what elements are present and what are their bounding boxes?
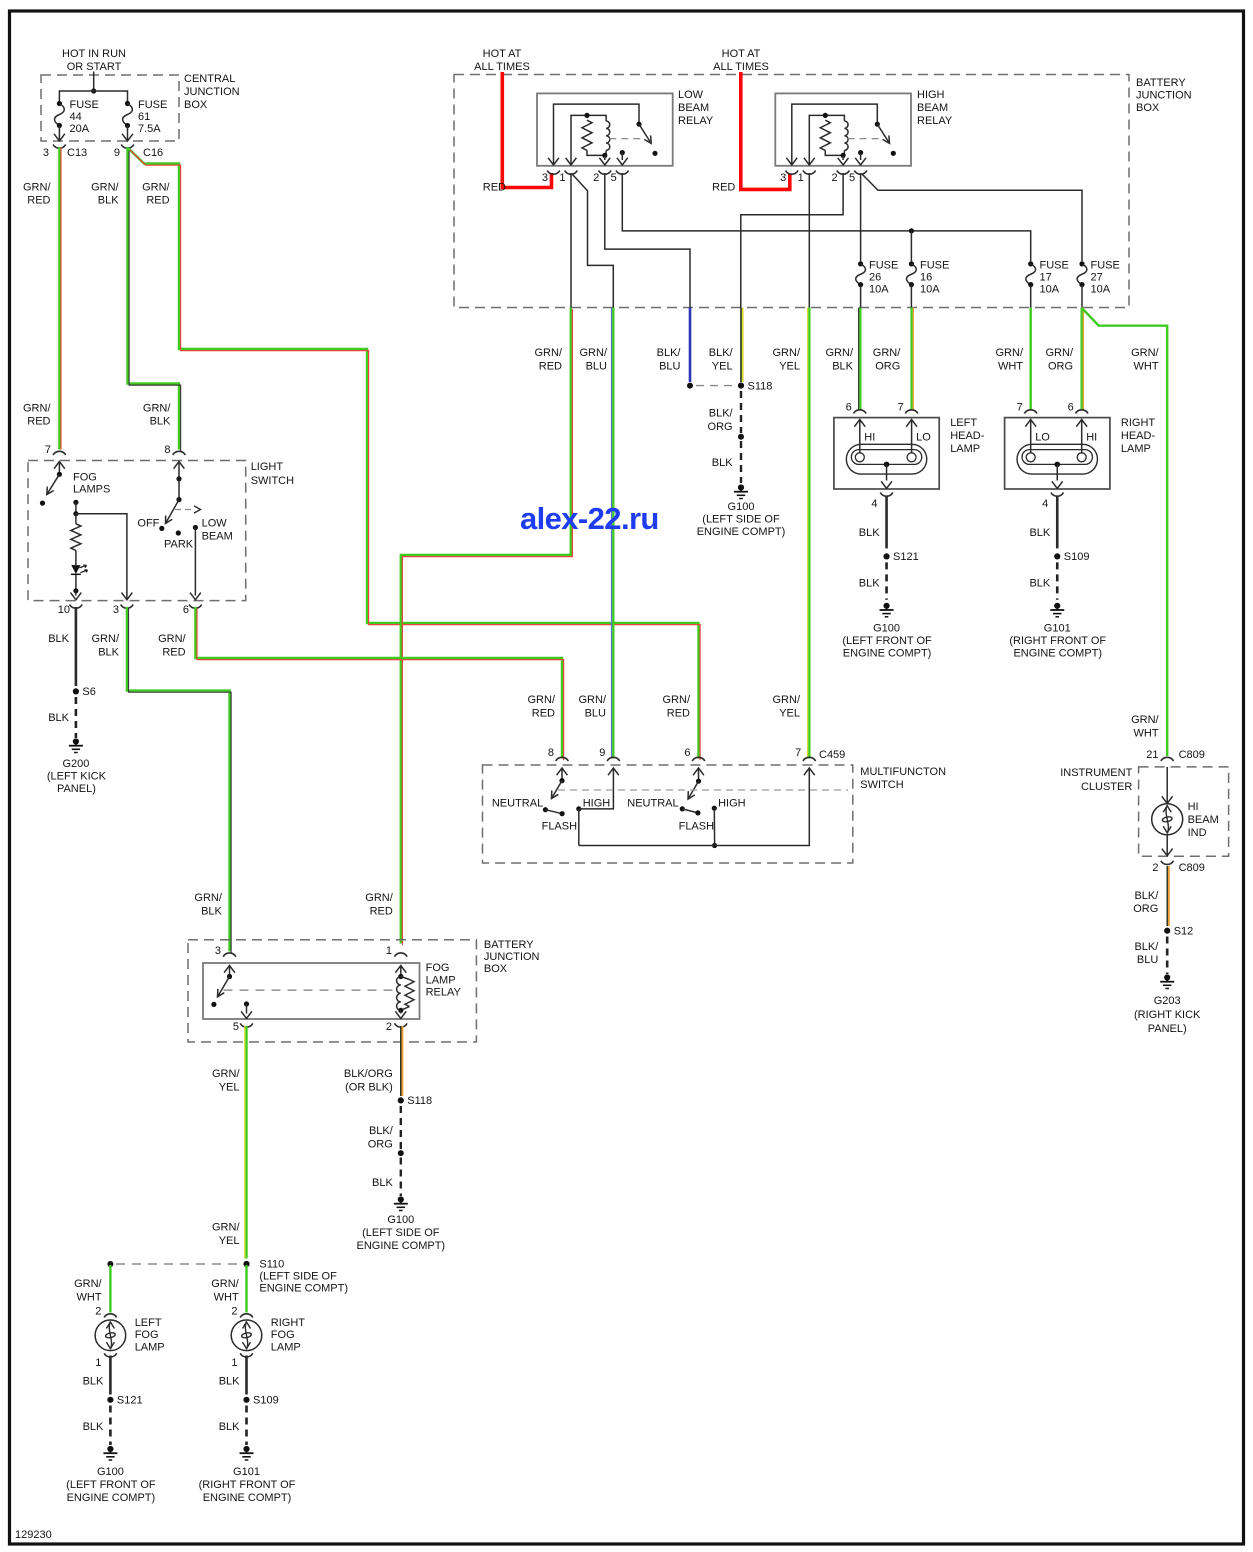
svg-text:C809: C809 — [1179, 862, 1205, 874]
wire GRN/BLK pin3 to fog relay pin 3 — [127, 607, 231, 953]
high beam relay pin5 arrow — [855, 158, 866, 165]
svg-text:(LEFT FRONT OF: (LEFT FRONT OF — [842, 635, 932, 647]
svg-text:GRN/ORG: GRN/ORG — [1046, 347, 1074, 373]
IC pin 2 connector — [1161, 861, 1174, 865]
low beam relay pin2 arrow — [599, 158, 610, 165]
svg-text:(LEFT SIDE OF: (LEFT SIDE OF — [362, 1227, 440, 1239]
right fog lamp pin 1 connector — [240, 1353, 253, 1357]
wire BLK dashed to G100 b — [400, 1158, 402, 1197]
svg-text:5: 5 — [849, 172, 855, 184]
high beam relay coil resistor — [820, 120, 830, 150]
svg-text:9: 9 — [114, 147, 120, 159]
svg-text:GRN/RED: GRN/RED — [528, 694, 556, 720]
svg-text:(LEFT FRONT OF: (LEFT FRONT OF — [66, 1479, 156, 1491]
svg-text:10A: 10A — [920, 284, 940, 296]
low beam relay pin 3 connector — [547, 171, 560, 175]
light switch pin 6 connector — [189, 605, 202, 609]
light switch pin 7 connector — [53, 451, 66, 455]
node feed junction — [91, 88, 96, 93]
fuse 26 output lead — [860, 285, 862, 308]
svg-text:6: 6 — [684, 747, 690, 759]
high beam relay pin2 arrow — [838, 158, 849, 165]
svg-text:7: 7 — [897, 402, 903, 414]
right headlamp stem 7 — [1030, 420, 1032, 453]
wire GRN/WHT to right fog lamp — [245, 1265, 247, 1313]
svg-text:2: 2 — [593, 172, 599, 184]
right headlamp filament loop B — [1077, 453, 1086, 462]
svg-text:BLK/BLU: BLK/BLU — [657, 347, 682, 373]
svg-text:21: 21 — [1146, 749, 1158, 761]
wire HB pin2 to BLK/YEL drop — [741, 173, 843, 308]
high beam relay pin 2 connector — [837, 171, 850, 175]
splice S121 — [107, 1395, 142, 1407]
resistor bottom lead — [75, 550, 77, 565]
right headlamp box — [1005, 418, 1110, 489]
wire GRN/RED C16 to multifunction switch pin 6 — [129, 149, 701, 761]
ground G101 — [1050, 603, 1064, 617]
wire BLK/ORG S118 to splice — [740, 391, 742, 433]
svg-text:GRN/RED: GRN/RED — [663, 694, 691, 720]
MFS left stem — [561, 768, 563, 781]
wire LB pin2 to BLK/BLU drop — [605, 173, 690, 308]
low beam relay pin 5 connector — [616, 171, 629, 175]
left headlamp box — [834, 418, 939, 489]
wire HB pin5 to fuse27 — [862, 174, 1082, 261]
left headlamp pin 4 connector — [880, 493, 893, 497]
svg-text:G203: G203 — [1154, 995, 1181, 1007]
low beam relay switch blade — [639, 124, 651, 143]
low beam relay pin5 contact — [620, 150, 625, 155]
connector C16 pin 9 — [121, 145, 134, 149]
node rail fuse16 tap — [909, 228, 914, 233]
multifunction switch outline — [483, 765, 853, 863]
left headlamp arrow 7 — [906, 420, 917, 427]
high beam relay switch blade — [877, 124, 889, 143]
svg-text:NEUTRAL: NEUTRAL — [627, 798, 678, 810]
light switch pin10 arrow — [71, 593, 82, 600]
wire fog node to pin 3 — [76, 514, 127, 600]
arrow fuse61 output — [122, 134, 133, 141]
fog relay pin3 arrow — [224, 966, 235, 973]
svg-text:FUSE: FUSE — [1040, 260, 1069, 272]
svg-text:2: 2 — [386, 1021, 392, 1033]
svg-text:BLK: BLK — [83, 1421, 104, 1433]
IC arrow into bulb — [1162, 796, 1173, 803]
svg-text:OFF: OFF — [137, 518, 159, 530]
low beam relay actuation dashed link — [609, 138, 643, 140]
svg-text:BLK/ORG: BLK/ORG — [368, 1125, 394, 1151]
svg-text:BLK: BLK — [372, 1177, 393, 1189]
light switch pin 8 connector — [173, 451, 186, 455]
high beam relay inductor bottom link — [843, 150, 845, 155]
fuse 26 — [856, 261, 866, 287]
right fog lamp BLK wire — [245, 1356, 248, 1395]
svg-text:C809: C809 — [1179, 749, 1205, 761]
low beam relay pin2 stem — [604, 155, 606, 160]
wire BLK/BLU dashed to G203 — [1166, 937, 1169, 975]
low beam relay coil feed rail — [571, 115, 606, 164]
fog relay output node — [244, 1001, 249, 1006]
svg-text:4: 4 — [1042, 498, 1048, 510]
fog relay pin2 stem — [400, 1010, 402, 1013]
right headlamp bulb inner — [1022, 450, 1092, 465]
battery junction box outline — [454, 75, 1129, 308]
fuse 17 output lead — [1030, 285, 1032, 308]
wire GRN/BLU to MFS pin 9 — [612, 308, 614, 759]
wire GRN/WHT fuse27 to instrument cluster — [1082, 309, 1167, 757]
svg-text:3: 3 — [542, 172, 548, 184]
fog relay coil inductor — [397, 977, 401, 1011]
fog relay output stem — [246, 1004, 248, 1014]
svg-text:GRN/RED: GRN/RED — [365, 892, 393, 918]
svg-text:2: 2 — [831, 172, 837, 184]
low beam relay coil top node — [584, 113, 589, 118]
feed stem into CJB — [93, 72, 95, 92]
low beam relay pin 2 connector — [599, 171, 612, 175]
MFS contact HIGH right — [712, 806, 717, 811]
high beam relay pin 3 connector — [786, 171, 799, 175]
fog node link — [75, 502, 77, 513]
svg-text:S118: S118 — [748, 380, 773, 392]
right headlamp arrow pin4 — [1052, 481, 1063, 488]
fog relay contact — [211, 1002, 216, 1007]
svg-text:129230: 129230 — [15, 1529, 52, 1541]
MFS contact NEUTRAL left — [543, 807, 548, 812]
fog relay pin1 arrow — [395, 966, 406, 973]
MFS high-to-pin9 link — [579, 768, 614, 809]
low beam relay pin3 rail — [554, 104, 640, 164]
fuse 61 — [123, 101, 133, 128]
MFS contact FLASH left — [560, 811, 565, 816]
splice link to S118 — [696, 385, 737, 387]
svg-text:10A: 10A — [1091, 284, 1111, 296]
low beam relay inductor bottom link — [605, 150, 607, 155]
svg-text:PARK: PARK — [164, 539, 194, 551]
fog relay actuation dashed — [224, 989, 393, 991]
high beam relay actuation dashed link — [848, 138, 882, 140]
svg-text:3: 3 — [43, 147, 49, 159]
svg-text:FUSE: FUSE — [869, 260, 898, 272]
svg-text:10: 10 — [58, 604, 70, 616]
splice S6 — [73, 686, 96, 698]
high beam relay switch pivot — [875, 122, 880, 127]
right headlamp arrow 6 — [1076, 420, 1087, 427]
svg-text:LO: LO — [1035, 432, 1050, 444]
svg-text:HOT IN RUN: HOT IN RUN — [62, 48, 126, 60]
svg-text:6: 6 — [846, 402, 852, 414]
high beam relay coil bottom node — [841, 153, 846, 158]
fog relay blade — [218, 977, 230, 997]
svg-text:BLK: BLK — [1029, 578, 1050, 590]
svg-text:GRN/ORG: GRN/ORG — [873, 347, 901, 373]
svg-text:BLK/ORG: BLK/ORG — [708, 408, 734, 434]
low beam relay pin 1 connector — [565, 171, 578, 175]
high beam relay pin 1 connector — [803, 171, 816, 175]
low beam relay switch pivot — [636, 122, 641, 127]
svg-text:BLK: BLK — [83, 1375, 104, 1387]
fog relay pin 3 connector — [223, 953, 236, 957]
svg-text:1: 1 — [559, 172, 565, 184]
MFS pin8 arrow — [557, 768, 568, 775]
svg-text:5: 5 — [611, 172, 617, 184]
fog switch blade arrowhead — [47, 487, 54, 495]
fog relay pin 1 connector — [395, 953, 408, 957]
MFS rail junction — [712, 843, 717, 848]
svg-text:27: 27 — [1091, 272, 1103, 284]
svg-text:1: 1 — [231, 1357, 237, 1369]
svg-text:GRN/RED: GRN/RED — [23, 182, 51, 207]
MFS left pivot — [559, 778, 564, 783]
svg-text:ALL TIMES: ALL TIMES — [474, 61, 530, 73]
svg-text:17: 17 — [1040, 272, 1052, 284]
light switch pin3 arrow — [122, 593, 133, 600]
MFS pin 9 connector — [607, 757, 620, 761]
fog feed node lower — [73, 511, 78, 516]
fog relay pin 5 connector — [240, 1023, 253, 1027]
rotary blade — [166, 500, 180, 524]
svg-text:BLK: BLK — [219, 1421, 240, 1433]
svg-text:ENGINE COMPT): ENGINE COMPT) — [203, 1492, 292, 1504]
rotary direction dashed — [175, 509, 193, 511]
MFS right blade — [688, 781, 699, 799]
right headlamp pin 7 connector — [1024, 410, 1037, 414]
left headlamp arrow pin4 — [881, 481, 892, 488]
left headlamp pin 6 connector — [854, 410, 867, 414]
svg-text:FUSE: FUSE — [1091, 260, 1120, 272]
high beam relay pin 5 connector — [854, 171, 867, 175]
svg-text:4: 4 — [871, 498, 877, 510]
wire GRN/WHT to left fog lamp — [109, 1265, 111, 1313]
wire LB pin1 to GRN/BLU drop — [573, 175, 614, 308]
left fog BLK dashed — [109, 1406, 112, 1446]
svg-text:HOT AT: HOT AT — [483, 48, 522, 60]
svg-text:S109: S109 — [253, 1395, 279, 1407]
svg-text:RIGHTHEAD-LAMP: RIGHTHEAD-LAMP — [1121, 417, 1156, 455]
MFS left high drop — [578, 809, 580, 846]
MFS left blade — [552, 781, 563, 799]
svg-text:BLK/ORG(OR BLK): BLK/ORG(OR BLK) — [344, 1068, 393, 1094]
svg-text:(LEFT KICK: (LEFT KICK — [47, 771, 107, 783]
svg-text:(LEFT SIDE OF: (LEFT SIDE OF — [702, 514, 780, 526]
svg-text:7: 7 — [1017, 402, 1023, 414]
MFS left blade arrowhead — [552, 791, 559, 799]
svg-text:2: 2 — [1152, 862, 1158, 874]
arrow fuse44 output — [54, 134, 65, 141]
svg-text:G200: G200 — [62, 758, 89, 770]
ground G100 front — [103, 1446, 117, 1460]
MFS pin 6 connector — [692, 757, 705, 761]
wire BLK/ORG fog relay pin2 to S118b — [401, 1026, 403, 1096]
MFS right pivot — [696, 779, 701, 784]
svg-text:GRN/RED: GRN/RED — [142, 182, 170, 207]
wire fuse16 feed — [910, 231, 912, 261]
left headlamp pin 7 connector — [905, 410, 918, 414]
right fog BLK dashed — [245, 1406, 248, 1446]
wire HB pin5 to fuse26 — [860, 173, 862, 261]
low beam relay pin5 stem — [621, 153, 623, 160]
IC pin 21 connector — [1161, 757, 1174, 761]
wire BLK/YEL black core — [740, 308, 742, 383]
svg-text:ENGINE COMPT): ENGINE COMPT) — [356, 1240, 445, 1252]
wire BLK/ORG dashed — [400, 1106, 402, 1149]
high beam relay pin5 stem — [860, 153, 862, 160]
MFS pin9 arrow — [608, 768, 619, 775]
low beam relay coil bottom link — [587, 150, 605, 155]
contact PARK — [176, 530, 181, 535]
MFS right blade arrowhead — [688, 791, 695, 799]
left headlamp arrow 6 — [854, 420, 865, 427]
svg-text:OR START: OR START — [67, 61, 122, 73]
wire GRN/RED LB pin1 to fog lamp relay pin 1 — [401, 308, 573, 946]
left headlamp bulb outer — [846, 444, 926, 474]
svg-text:RED: RED — [483, 182, 506, 194]
svg-text:16: 16 — [920, 272, 932, 284]
wire fuse44 to pin — [58, 126, 60, 141]
high beam relay switch contact — [891, 151, 896, 156]
svg-text:BLK/BLU: BLK/BLU — [1134, 941, 1159, 966]
svg-text:G100: G100 — [97, 1466, 124, 1478]
right fog lamp pin 2 connector — [240, 1314, 253, 1318]
high beam relay coil inductor — [844, 121, 848, 150]
svg-text:6: 6 — [1068, 402, 1074, 414]
light switch pin 3 connector — [121, 605, 134, 609]
fuse 27 — [1077, 261, 1087, 287]
low beam relay coil inductor — [606, 121, 610, 150]
svg-text:S109: S109 — [1064, 551, 1090, 563]
svg-text:C459: C459 — [819, 749, 845, 761]
svg-text:S6: S6 — [82, 686, 95, 698]
wire BLK to ground G100 — [740, 441, 742, 483]
light switch outline — [28, 461, 246, 601]
fog switch contact — [40, 501, 45, 506]
left headlamp stem 7 — [911, 420, 913, 453]
svg-text:S118: S118 — [407, 1095, 432, 1107]
svg-text:7.5A: 7.5A — [138, 123, 161, 135]
right headlamp ground BLK wire — [1056, 497, 1059, 549]
MFS pin6 arrow — [693, 768, 704, 775]
fog switch stem — [58, 462, 60, 475]
left headlamp ground BLK wire — [885, 497, 888, 549]
fog relay pivot — [227, 974, 232, 979]
light switch pin8 arrow — [174, 462, 185, 469]
contact OFF — [159, 526, 164, 531]
connector C13 pin 3 — [53, 145, 66, 149]
fog indicator LED — [71, 565, 88, 574]
high beam relay pin3 arrow — [786, 158, 797, 165]
MFS contact HIGH left — [576, 806, 581, 811]
svg-text:G100: G100 — [728, 501, 755, 513]
svg-text:1: 1 — [95, 1357, 101, 1369]
splice S109 — [1054, 551, 1089, 563]
bus wire to fuses — [59, 91, 127, 104]
low beam relay coil resistor — [582, 120, 592, 150]
instrument cluster outline — [1139, 767, 1229, 856]
left fog lamp BLK wire — [109, 1356, 112, 1395]
high beam relay pin5 contact — [858, 150, 863, 155]
high beam relay pin2 stem — [842, 155, 844, 160]
svg-text:GRN/RED: GRN/RED — [23, 403, 51, 428]
low beam relay blade arrowhead — [644, 135, 651, 143]
svg-text:GRN/WHT: GRN/WHT — [1131, 714, 1159, 740]
svg-text:BLK: BLK — [1029, 527, 1050, 539]
svg-text:10A: 10A — [1040, 284, 1060, 296]
ground G100 (left side) b — [394, 1196, 408, 1210]
svg-text:RED: RED — [712, 182, 735, 194]
battery junction box 2 outline — [188, 940, 476, 1042]
wire GRN/YEL HB pin1 to MFS pin 7 — [808, 308, 810, 759]
svg-text:GRN/WHT: GRN/WHT — [1131, 347, 1159, 373]
rotary node 1 — [176, 476, 181, 481]
ground G101 front — [240, 1446, 254, 1460]
wire BLK pin10 to S6 — [75, 607, 78, 686]
rotary stem — [178, 462, 180, 479]
svg-text:ENGINE COMPT): ENGINE COMPT) — [1013, 648, 1102, 660]
svg-text:7: 7 — [45, 444, 51, 456]
svg-text:FUSE: FUSE — [70, 99, 99, 111]
wire LB pin1 down (to GRN/RED) — [570, 173, 572, 308]
wire RED feed to low beam relay — [502, 72, 551, 188]
svg-text:10A: 10A — [869, 284, 889, 296]
fog relay resistor top link — [401, 977, 410, 980]
fuse 16 — [907, 261, 917, 287]
wire GRN/ORG fuse16 to left headlamp pin 7 — [912, 308, 914, 411]
splice S12 — [1164, 926, 1193, 938]
left headlamp bulb inner — [851, 450, 921, 465]
wire GRN/BLK C16 to light switch pin 8 — [128, 147, 181, 451]
right fog lamp bulb — [231, 1320, 262, 1351]
svg-text:GRN/RED: GRN/RED — [158, 633, 186, 659]
svg-text:S12: S12 — [1174, 926, 1194, 938]
wire GRN/ORG fuse27 to right headlamp pin 6 — [1082, 308, 1084, 411]
wire BLK/ORG black core (fog relay) — [400, 1026, 402, 1096]
MFS right neutral-flash link — [682, 809, 698, 813]
right headlamp filament loop A — [1026, 453, 1035, 462]
svg-text:6: 6 — [183, 604, 189, 616]
low beam relay box — [537, 93, 673, 165]
node S110 left branch — [107, 1261, 113, 1267]
svg-text:G101: G101 — [1044, 623, 1071, 635]
left headlamp ground BLK dashed to ground — [885, 562, 888, 599]
fog relay pin 2 connector — [395, 1023, 408, 1027]
MFS bottom rail to pin7 — [579, 768, 810, 846]
svg-text:G101: G101 — [233, 1466, 260, 1478]
splice S109 — [243, 1395, 278, 1407]
svg-text:G100: G100 — [387, 1214, 414, 1226]
wire GRN/WHT fuse17 to right headlamp pin 7 — [1029, 308, 1031, 411]
splice S118 b — [398, 1095, 432, 1107]
ground G200 — [69, 738, 83, 752]
svg-text:3: 3 — [780, 172, 786, 184]
left headlamp common node — [884, 462, 890, 468]
svg-text:44: 44 — [70, 111, 82, 123]
MFS contact NEUTRAL right — [680, 806, 685, 811]
right headlamp bulb outer — [1017, 444, 1097, 474]
fog relay resistor bottom link — [401, 1007, 410, 1011]
wire RED feed to high beam relay — [741, 72, 790, 189]
left headlamp ground stem — [886, 464, 888, 480]
svg-text:7: 7 — [795, 747, 801, 759]
svg-text:9: 9 — [599, 747, 605, 759]
MFS pin7 arrow — [804, 768, 815, 775]
high beam relay coil bottom link — [825, 150, 843, 155]
wire BLK/YEL from HB pin2 to S118 — [741, 308, 743, 383]
HI BEAM IND bulb — [1152, 804, 1183, 835]
svg-text:ALL TIMES: ALL TIMES — [713, 61, 769, 73]
fog lamp relay box — [203, 963, 420, 1019]
left headlamp filament loop B — [907, 453, 916, 462]
IC stem bottom — [1166, 835, 1168, 855]
fog relay blade arrowhead — [218, 989, 225, 997]
